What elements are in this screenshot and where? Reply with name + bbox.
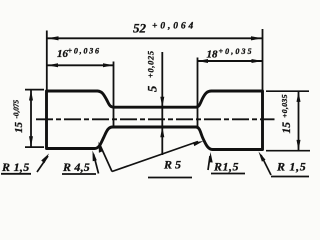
dimension 16+0,036 (48, 64, 114, 66)
extension line for 16 dim at neck start (113, 62, 115, 128)
horizontal centerline (36, 118, 275, 120)
dimension 18+0,035 (198, 60, 263, 62)
svg-text:+0,064: +0,064 (152, 22, 196, 32)
svg-text:15: 15 (281, 122, 293, 134)
specimen outline (47, 91, 263, 150)
svg-text:15: 15 (13, 122, 25, 134)
svg-text:+0,035: +0,035 (219, 47, 254, 56)
svg-text:R1,5: R1,5 (213, 160, 239, 174)
leader R5 (vee to both lower ramps) (100, 145, 112, 172)
svg-text:52: 52 (133, 21, 147, 36)
svg-text:+0,025: +0,025 (147, 50, 156, 78)
svg-text:R 1,5: R 1,5 (1, 160, 30, 174)
dimension 15-0,075 (left grip height) (25, 89, 44, 91)
dimension 15+0,035 (right grip height) (266, 90, 309, 92)
svg-text:+0,035: +0,035 (280, 94, 289, 118)
svg-text:R 1,5: R 1,5 (276, 160, 307, 174)
svg-text:+0,036: +0,036 (68, 47, 101, 56)
svg-text:-0,075: -0,075 (13, 100, 21, 119)
svg-text:18: 18 (207, 49, 219, 61)
svg-text:5: 5 (146, 86, 160, 92)
extension line left (52/16 dims) (46, 31, 48, 92)
dimension 52+0,064 (48, 37, 263, 39)
extension line right (52/18 dims) (262, 29, 264, 91)
extension line for 18 dim at neck end (197, 58, 199, 128)
svg-text:R 4,5: R 4,5 (62, 160, 90, 174)
svg-text:R 5: R 5 (163, 158, 181, 172)
leader R1,5 bottom-left (37, 156, 48, 172)
leader R1,5 (right ramp) (208, 156, 210, 170)
leader R4,5 (94, 154, 99, 174)
leader R1,5 bottom-right (261, 155, 271, 175)
dimension 5+0,025 (neck height, vertical) (161, 52, 163, 155)
